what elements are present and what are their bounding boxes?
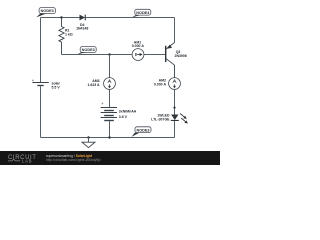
LED terminal dot	[173, 107, 175, 109]
svg-text:0.000 A: 0.000 A	[154, 82, 167, 86]
footer bar	[0, 151, 220, 165]
ammeter AM1 0.000 A	[132, 40, 145, 60]
svg-text:LTL-307GE: LTL-307GE	[151, 118, 170, 122]
junction at R1 top	[60, 16, 62, 18]
diode D4 1N4148	[76, 15, 88, 31]
svg-text:1N4148: 1N4148	[76, 26, 88, 30]
svg-text:1 kΩ: 1 kΩ	[65, 32, 73, 36]
wire right rail (emitter feed)	[174, 18, 176, 43]
battery BAT1 3xNiMnAA 3.6 V	[101, 101, 137, 121]
svg-text:2N3906: 2N3906	[175, 54, 187, 58]
ammeter AM3 1.623 A	[87, 78, 115, 90]
svg-text:NODE3: NODE3	[82, 48, 95, 52]
svg-text:http://circuitlab.com/c/gtrbt-: http://circuitlab.com/c/gtrbt-2t6/bdy5jx	[46, 158, 101, 162]
node label NODE3 (middle)	[77, 47, 96, 55]
voltage source solar 5.5 V	[32, 78, 61, 89]
svg-text:5.5 V: 5.5 V	[52, 85, 61, 89]
wire battery branch top	[109, 55, 111, 78]
wire LED to bottom rail	[174, 121, 176, 138]
node label NODE3 (bottom)	[132, 127, 152, 137]
wire AM3 to battery	[109, 89, 111, 107]
footer text	[46, 154, 101, 162]
svg-text:3xNiMnAA: 3xNiMnAA	[119, 110, 137, 114]
wire bottom rail	[41, 137, 175, 139]
svg-text:3.6 V: 3.6 V	[119, 115, 128, 119]
junction ground	[87, 136, 89, 138]
wire middle rail (R1 bottom to Q3 base)	[62, 54, 166, 56]
wire AM2 to LED	[174, 89, 176, 114]
junction battery branch top	[108, 53, 110, 55]
LED D1 1WLED LTL-307GE	[151, 114, 188, 124]
wire battery to bottom rail	[109, 121, 111, 137]
node label NODE4	[132, 9, 151, 17]
resistor R1 1 kOhm	[59, 18, 73, 55]
svg-text:NODE3: NODE3	[136, 128, 149, 132]
transistor Q3 2N3906	[165, 43, 187, 78]
svg-text:LAB: LAB	[22, 158, 32, 163]
svg-text:NODE4: NODE4	[136, 11, 150, 15]
ground	[82, 138, 95, 148]
node A label NODE3 (top left)	[36, 8, 55, 18]
ammeter AM2 0.000 A	[154, 78, 181, 90]
wire left rail	[40, 18, 42, 138]
svg-text:0.000 A: 0.000 A	[132, 44, 145, 48]
footer CircuitLab logo	[8, 155, 37, 163]
svg-text:1.623 A: 1.623 A	[87, 83, 100, 87]
junction battery bottom	[108, 136, 110, 138]
wire top rail	[41, 17, 175, 19]
svg-text:NODE3: NODE3	[41, 9, 54, 13]
